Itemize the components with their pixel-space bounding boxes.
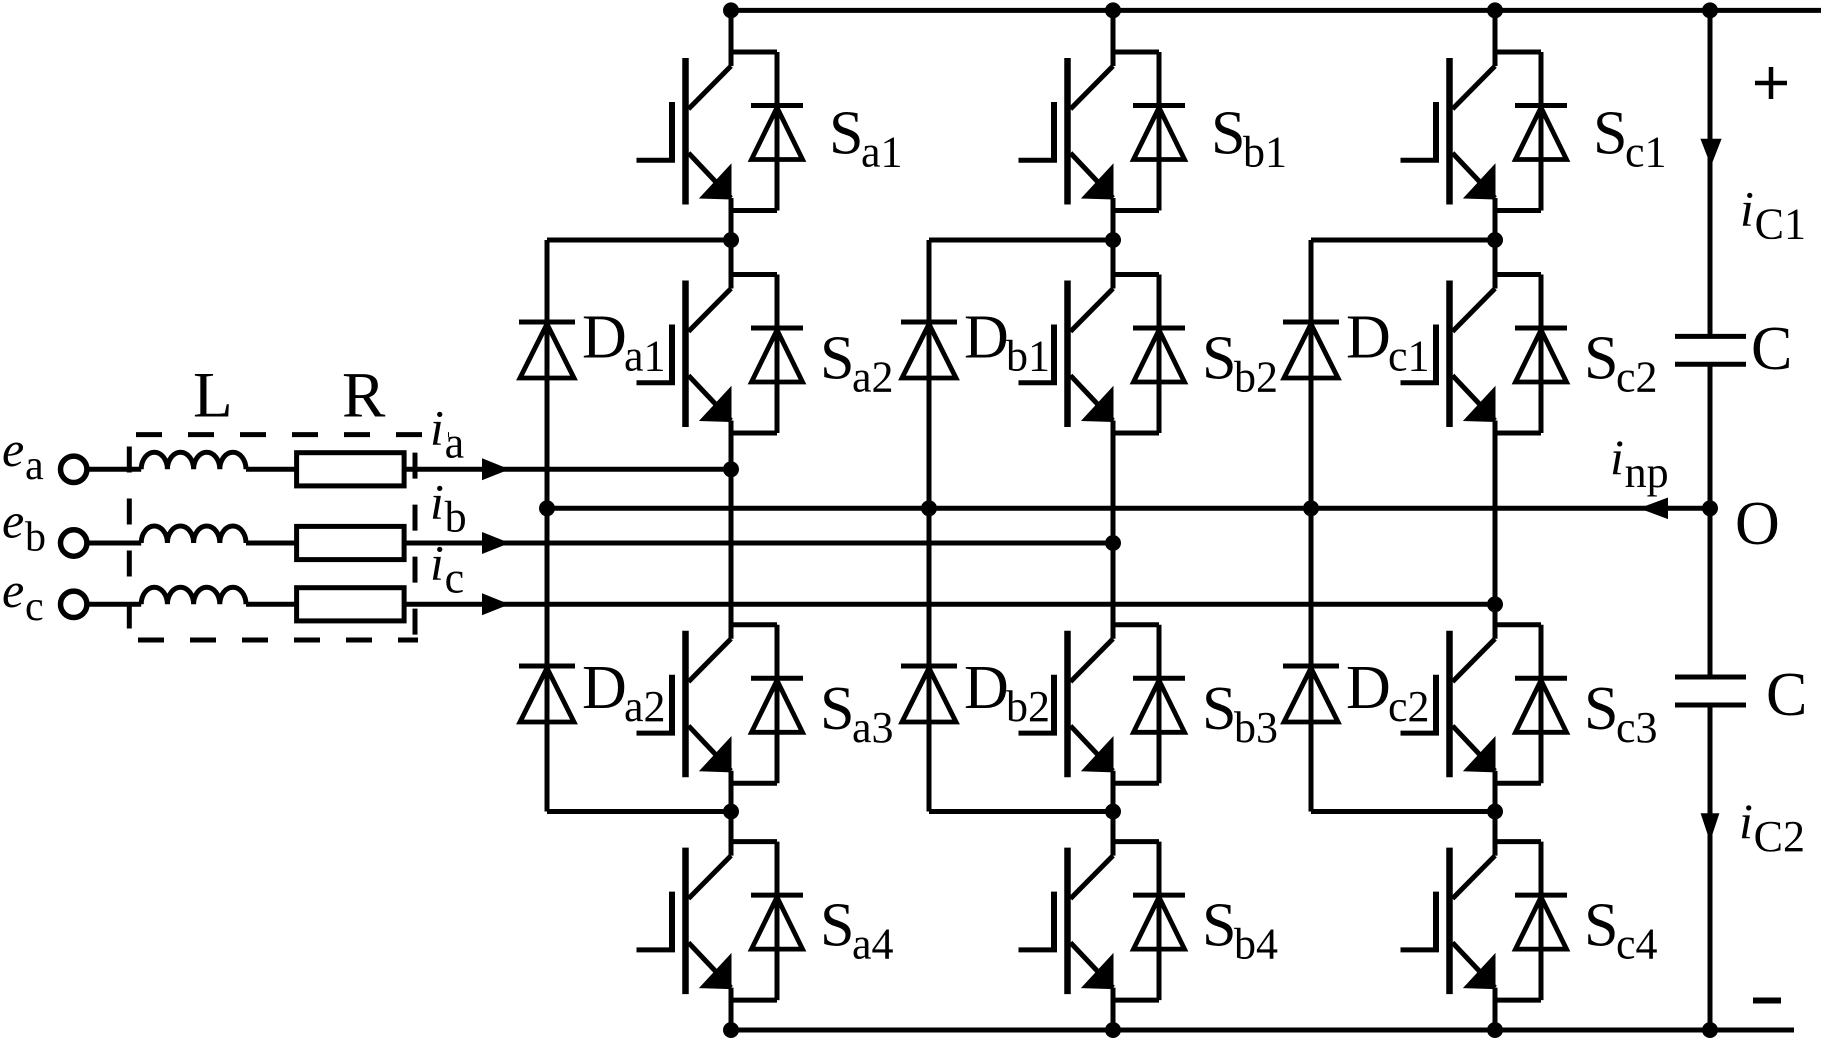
node: upper clamp junction, phase a <box>723 232 739 248</box>
node: lower clamp junction, phase c <box>1487 804 1503 820</box>
node: bottom rail junction, phase b <box>1105 1022 1121 1038</box>
svg-text:C: C <box>1766 661 1807 729</box>
node: bottom rail junction, phase a <box>723 1022 739 1038</box>
wire i_c line to phase c <box>404 602 1495 607</box>
svg-text:e: e <box>2 562 24 618</box>
wire clamp branch of phase a <box>547 240 731 812</box>
svg-text:S: S <box>1202 675 1236 743</box>
source e_b terminal, inductor L and resistor R row <box>60 526 509 560</box>
transistor S_b3 (IGBT with antiparallel diode) <box>1019 625 1186 784</box>
svg-text:np: np <box>1625 448 1669 497</box>
node: bus top junction <box>1702 2 1718 18</box>
node O (neutral point) <box>1702 500 1718 516</box>
node: bottom rail junction, phase c <box>1487 1022 1503 1038</box>
transistor S_b4 (IGBT with antiparallel diode) <box>1019 842 1186 1001</box>
node: clamp midpoint on O line, phase b <box>921 500 937 516</box>
transistor S_c4 (IGBT with antiparallel diode) <box>1401 842 1568 1001</box>
clamp diode D_a1 <box>519 322 575 378</box>
wire DC bus vertical <box>1708 10 1713 1030</box>
svg-text:L: L <box>193 360 233 432</box>
svg-text:S: S <box>1211 100 1245 168</box>
svg-text:S: S <box>820 892 854 960</box>
svg-text:R: R <box>342 360 386 432</box>
wire negative DC rail (bottom) <box>731 1028 1794 1033</box>
svg-text:b3: b3 <box>1234 703 1278 752</box>
source e_c terminal, inductor L and resistor R row <box>60 587 509 621</box>
svg-text:S: S <box>1584 892 1618 960</box>
svg-text:c1: c1 <box>1388 332 1430 381</box>
phase b leg vertical wire segments <box>1111 10 1116 1030</box>
svg-text:a3: a3 <box>852 703 894 752</box>
source e_a terminal, inductor L and resistor R row <box>60 452 509 486</box>
node: bus bottom junction <box>1702 1022 1718 1038</box>
node: top rail junction, phase b <box>1105 2 1121 18</box>
node: clamp midpoint on O line, phase a <box>539 500 555 516</box>
svg-text:i: i <box>430 473 444 529</box>
svg-text:O: O <box>1735 490 1780 558</box>
node: top rail junction, phase c <box>1487 2 1503 18</box>
node: upper clamp junction, phase c <box>1487 232 1503 248</box>
svg-text:S: S <box>1202 325 1236 393</box>
svg-text:b: b <box>25 515 46 561</box>
transistor S_a3 (IGBT with antiparallel diode) <box>637 625 804 784</box>
clamp diode D_c2 <box>1283 666 1339 722</box>
node: top rail junction, phase a <box>723 2 739 18</box>
svg-text:D: D <box>582 654 627 722</box>
node: clamp midpoint on O line, phase c <box>1303 500 1319 516</box>
svg-text:S: S <box>1584 675 1618 743</box>
svg-text:e: e <box>2 493 24 549</box>
svg-text:b: b <box>445 492 467 541</box>
transistor S_c1 (IGBT with antiparallel diode) <box>1401 52 1568 211</box>
node: phase a output junction <box>723 461 739 477</box>
phase a leg vertical wire segments <box>729 10 734 1030</box>
svg-text:D: D <box>1346 654 1391 722</box>
svg-text:a: a <box>445 419 465 468</box>
arrow i_C1 downward <box>1700 139 1721 166</box>
svg-text:a1: a1 <box>624 332 666 381</box>
transistor S_a4 (IGBT with antiparallel diode) <box>637 842 804 1001</box>
svg-text:S: S <box>1584 325 1618 393</box>
svg-text:c3: c3 <box>1616 703 1658 752</box>
svg-text:C1: C1 <box>1755 199 1806 248</box>
svg-text:D: D <box>582 304 627 372</box>
svg-text:i: i <box>1740 180 1754 236</box>
node: upper clamp junction, phase b <box>1105 232 1121 248</box>
svg-text:c2: c2 <box>1388 682 1430 731</box>
svg-text:a4: a4 <box>852 920 894 969</box>
svg-text:i: i <box>430 400 444 456</box>
node: lower clamp junction, phase b <box>1105 804 1121 820</box>
svg-text:D: D <box>964 654 1009 722</box>
arrow i_np pointing left <box>1639 498 1668 520</box>
svg-text:S: S <box>1202 892 1236 960</box>
clamp diode D_b1 <box>901 322 957 378</box>
svg-text:e: e <box>2 421 24 477</box>
transistor S_a2 (IGBT with antiparallel diode) <box>637 275 804 434</box>
svg-text:c4: c4 <box>1616 920 1658 969</box>
svg-text:c2: c2 <box>1616 353 1658 402</box>
svg-text:c1: c1 <box>1625 128 1667 177</box>
label + <box>1755 67 1787 99</box>
dashed box around L,R filter <box>129 432 449 437</box>
svg-text:b2: b2 <box>1006 682 1050 731</box>
transistor S_b1 (IGBT with antiparallel diode) <box>1019 52 1186 211</box>
wire i_a line to phase a <box>404 467 731 472</box>
clamp diode D_c1 <box>1283 322 1339 378</box>
svg-text:S: S <box>829 100 863 168</box>
clamp diode D_b2 <box>901 666 957 722</box>
svg-text:a1: a1 <box>861 128 903 177</box>
svg-text:S: S <box>820 325 854 393</box>
capacitor C (lower) <box>1675 677 1746 705</box>
phase c leg vertical wire segments <box>1493 10 1498 1030</box>
wire positive DC rail (top) <box>731 8 1821 13</box>
label minus <box>1753 998 1781 1004</box>
capacitor C (upper) <box>1675 336 1746 364</box>
transistor S_b2 (IGBT with antiparallel diode) <box>1019 275 1186 434</box>
svg-text:b1: b1 <box>1243 128 1287 177</box>
svg-text:C2: C2 <box>1754 812 1805 861</box>
node: phase b output junction <box>1105 535 1121 551</box>
svg-text:a2: a2 <box>624 682 666 731</box>
svg-text:a2: a2 <box>852 353 894 402</box>
svg-text:C: C <box>1751 315 1792 383</box>
svg-text:S: S <box>1593 100 1627 168</box>
node: lower clamp junction, phase a <box>723 804 739 820</box>
wire i_b line to phase b <box>404 541 1113 546</box>
svg-text:c: c <box>25 584 44 630</box>
svg-text:D: D <box>1346 304 1391 372</box>
svg-text:a: a <box>25 443 44 489</box>
svg-text:i: i <box>1610 429 1624 485</box>
transistor S_a1 (IGBT with antiparallel diode) <box>637 52 804 211</box>
transistor S_c3 (IGBT with antiparallel diode) <box>1401 625 1568 784</box>
svg-text:c: c <box>445 554 465 603</box>
svg-text:S: S <box>820 675 854 743</box>
svg-text:b4: b4 <box>1234 920 1278 969</box>
wire clamp branch of phase c <box>1311 240 1495 812</box>
svg-text:i: i <box>1739 793 1753 849</box>
clamp diode D_a2 <box>519 666 575 722</box>
svg-text:b2: b2 <box>1234 353 1278 402</box>
wire neutral O line <box>547 506 1710 511</box>
svg-text:b1: b1 <box>1006 332 1050 381</box>
transistor S_c2 (IGBT with antiparallel diode) <box>1401 275 1568 434</box>
arrow i_C2 downward <box>1701 813 1720 841</box>
node: phase c output junction <box>1487 596 1503 612</box>
wire clamp branch of phase b <box>929 240 1113 812</box>
svg-text:D: D <box>964 304 1009 372</box>
